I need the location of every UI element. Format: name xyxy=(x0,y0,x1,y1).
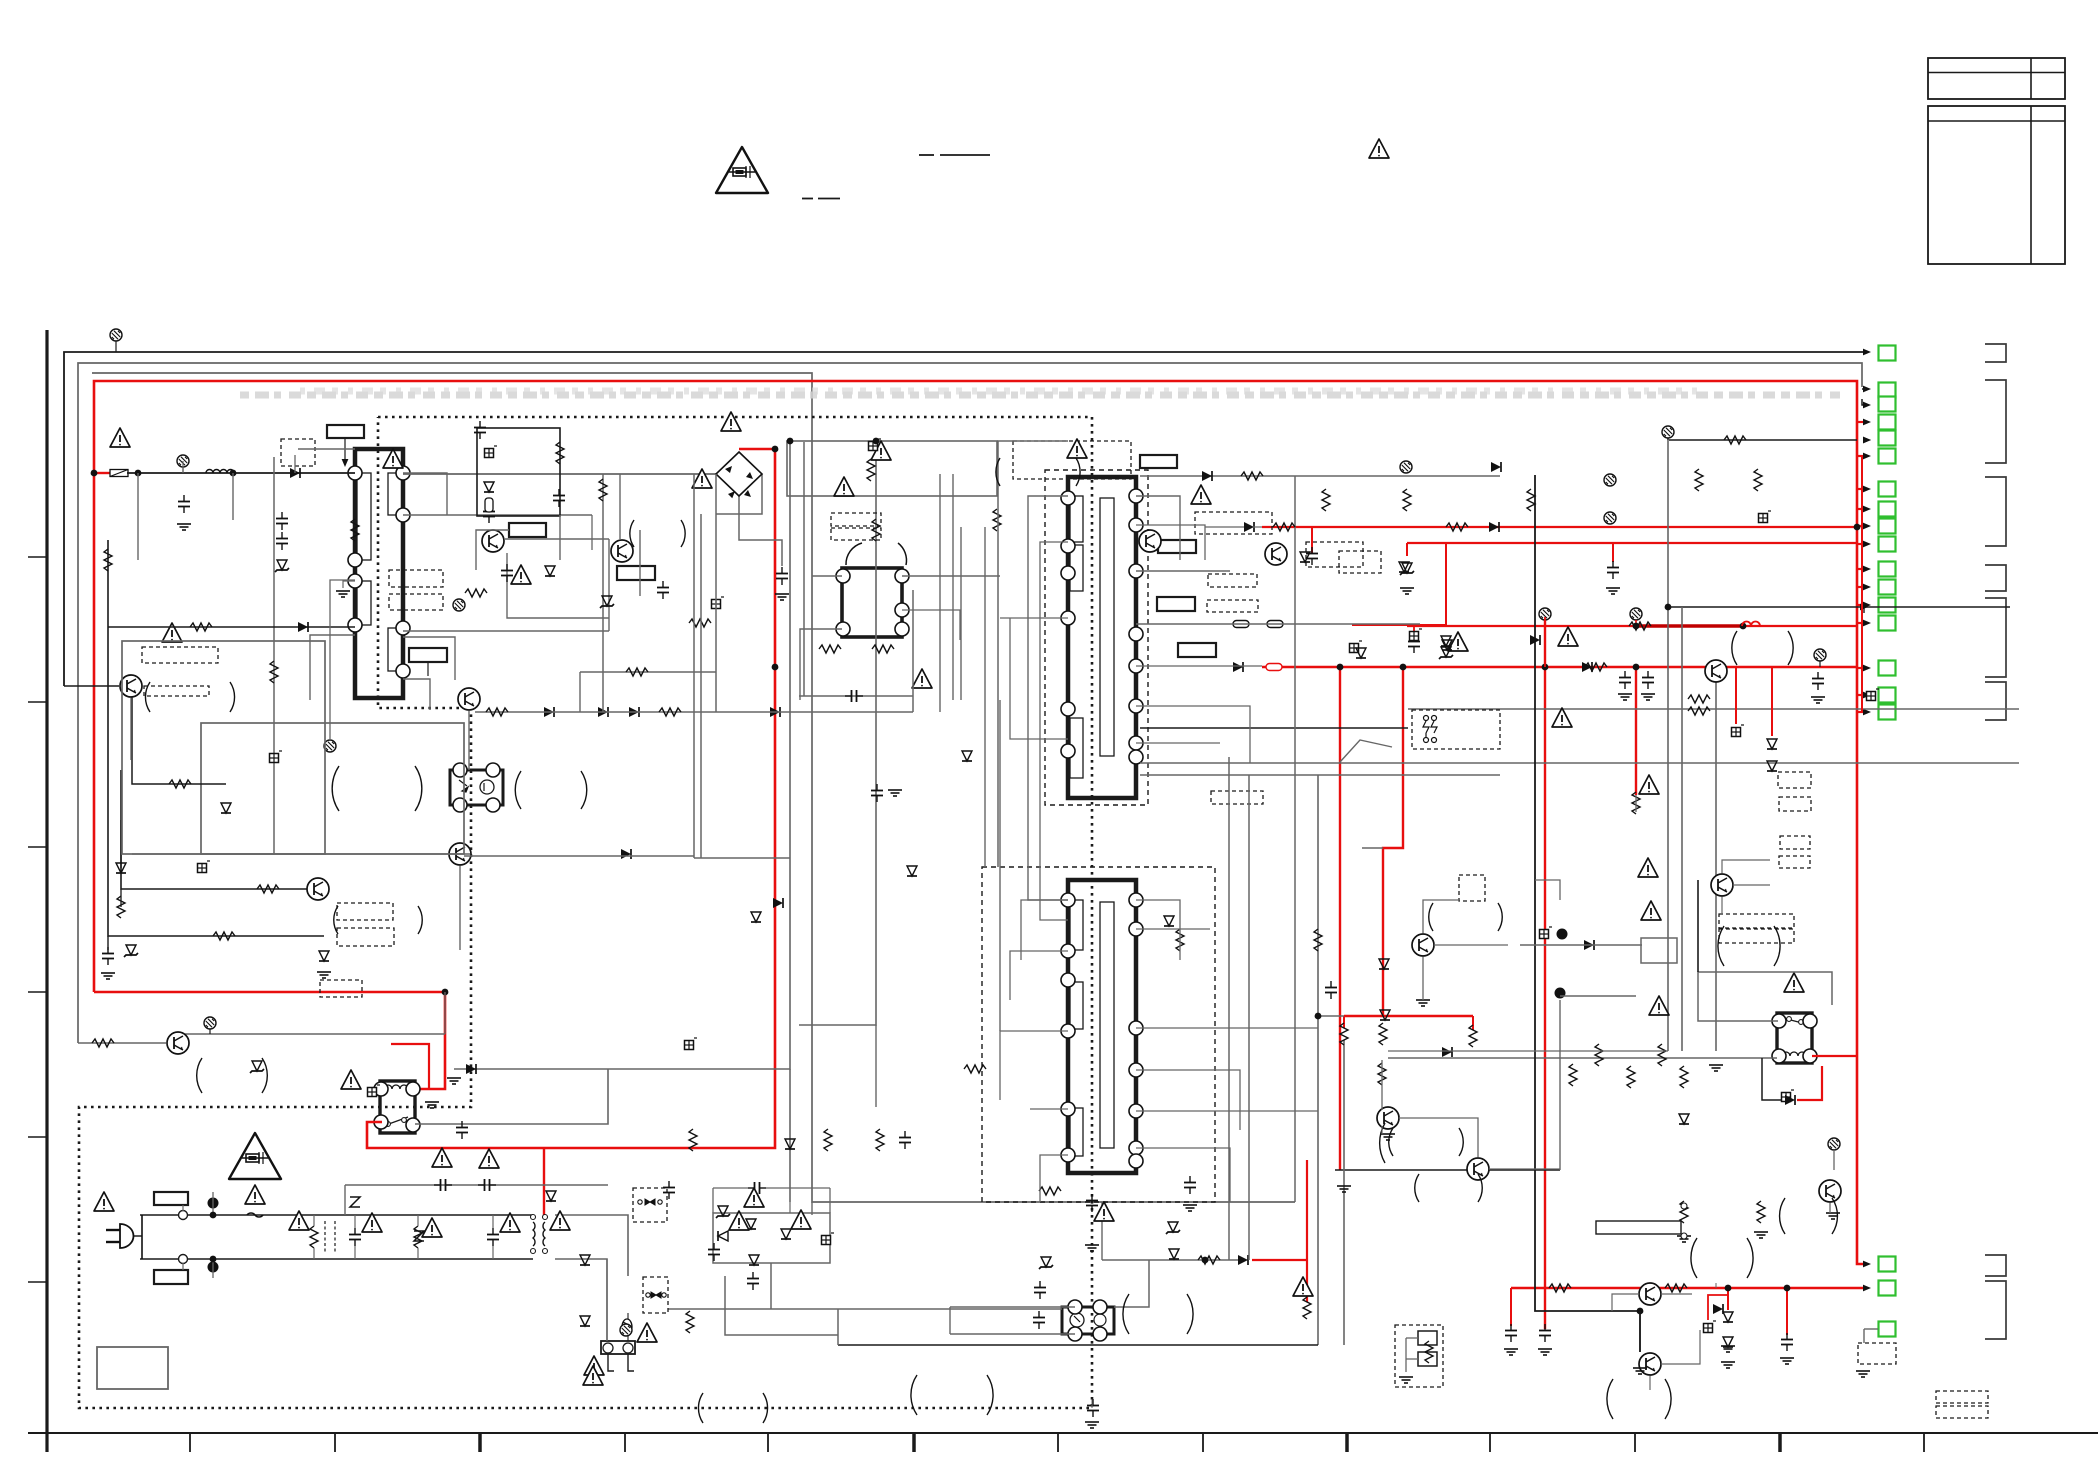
capacitor C90 xyxy=(349,1228,361,1246)
diode D xyxy=(1399,562,1409,572)
wire main row to bridge xyxy=(403,473,716,475)
wire relay2 branch xyxy=(1762,1058,1783,1100)
wire red relay2 diode xyxy=(1797,1066,1822,1100)
optocoupler PC2 pin xyxy=(1093,1327,1107,1341)
diode D xyxy=(1582,662,1592,672)
border bottom tick xyxy=(912,1433,916,1452)
bridge rectifier BR1 xyxy=(716,452,762,496)
diode D xyxy=(546,1191,556,1201)
border left tick xyxy=(28,991,46,993)
dash marks xyxy=(919,154,934,156)
wire q16 vert xyxy=(1715,682,1717,1051)
wire diag crank xyxy=(1340,740,1392,762)
arrow into CN 607 xyxy=(1860,604,1868,611)
transistor Q9 xyxy=(1711,874,1733,896)
wire red branch to line filter xyxy=(543,1148,545,1218)
ground xyxy=(1337,1186,1351,1192)
test point TP11 xyxy=(324,740,336,752)
warning symbol W35 xyxy=(583,1366,603,1385)
wire q16 net3 xyxy=(608,539,610,631)
warning symbol W20 xyxy=(432,1148,452,1167)
diode D xyxy=(1785,1095,1795,1105)
callout dashed box xyxy=(1412,710,1500,749)
callout dashed box xyxy=(1013,441,1131,479)
resistor R xyxy=(876,1129,884,1151)
capacitor C xyxy=(1033,1311,1045,1329)
wire red stub to CN pin xyxy=(1857,711,1864,713)
resistor R xyxy=(1303,1297,1311,1319)
wire xyxy=(1136,1070,1240,1130)
border bottom tick xyxy=(1057,1433,1059,1452)
component label box xyxy=(617,566,655,580)
resistor R xyxy=(1658,1044,1666,1066)
callout dashed box xyxy=(1778,772,1811,788)
transformer T5 arcs xyxy=(846,543,862,565)
capacitor C polar xyxy=(1540,927,1553,939)
resistor R xyxy=(1322,489,1330,511)
warning symbol W33 xyxy=(744,1188,764,1207)
jack J1 inner square2 xyxy=(1418,1352,1437,1366)
wire red stub to CN pin xyxy=(1857,508,1864,510)
connector bracket xyxy=(1985,344,2006,362)
resistor R xyxy=(1176,929,1184,951)
wire red aux stub xyxy=(1413,625,1415,637)
junction xyxy=(135,470,142,477)
relay RL2 pin xyxy=(1772,1014,1786,1028)
capacitor C xyxy=(871,784,883,802)
transformer T5 pin xyxy=(836,622,850,636)
jack J1 wire xyxy=(1406,1337,1418,1339)
wire xyxy=(330,580,355,740)
connector CN pin box xyxy=(1879,661,1896,676)
resistor R xyxy=(819,645,841,653)
wire xyxy=(1535,880,1560,900)
connector CN pin box xyxy=(1879,537,1896,552)
wire red vert 1446 xyxy=(1445,543,1447,626)
diode D xyxy=(773,898,783,908)
junction xyxy=(873,438,880,445)
wire xyxy=(789,1202,791,1213)
resistor R xyxy=(1688,695,1710,703)
resistor R672 xyxy=(626,668,648,676)
transistor Q3 xyxy=(307,878,329,900)
wire red stub 1787 xyxy=(1786,1288,1788,1335)
diode D xyxy=(1380,1010,1390,1020)
connector bracket xyxy=(1985,565,2006,591)
isolation dashed box around T3 xyxy=(982,867,1215,1202)
component label box xyxy=(1178,643,1216,657)
test point TP6 xyxy=(1604,512,1616,524)
wire inner gray loop xyxy=(92,373,1295,1202)
diode zener ZD xyxy=(250,1061,264,1073)
transformer T2 pin xyxy=(1061,566,1075,580)
snubber parts xyxy=(485,446,498,458)
connector bracket xyxy=(1985,477,2006,546)
transformer T3 pin xyxy=(1129,1063,1143,1077)
capacitor C xyxy=(178,495,190,513)
border bottom tick xyxy=(1345,1433,1349,1452)
transformer T3 pin xyxy=(1129,922,1143,936)
resistor R476 xyxy=(1241,472,1263,480)
capacitor C polar xyxy=(1410,629,1423,641)
relay RL2 switch xyxy=(1783,1018,1806,1024)
winding arc pair xyxy=(1691,1238,1697,1278)
connector CN pin box xyxy=(1879,705,1896,720)
wire xyxy=(1136,665,1262,667)
tp stem xyxy=(1635,620,1637,630)
callout dashed box xyxy=(1779,797,1811,811)
ground xyxy=(425,1102,439,1108)
transformer T2 pin xyxy=(1129,627,1143,641)
diode D xyxy=(1530,635,1540,645)
IC label box gray xyxy=(1641,938,1677,963)
wire xyxy=(1721,897,1723,914)
diode D xyxy=(1238,1255,1248,1265)
wire vert 274 xyxy=(273,457,275,854)
warning symbol W34 xyxy=(1094,1202,1114,1221)
callout dashed box T5b xyxy=(831,528,881,540)
wire row 1345 xyxy=(838,1344,1318,1346)
title block upper divider xyxy=(1928,72,2065,74)
wire xyxy=(1612,1294,1639,1311)
transformer T3 winding b xyxy=(1070,982,1083,1029)
wire xyxy=(591,515,593,550)
wire xyxy=(1030,1108,1068,1110)
test point TP13 xyxy=(620,1324,632,1336)
border bottom tick xyxy=(1778,1433,1782,1452)
wire red rail stub xyxy=(1311,527,1313,554)
resistor R xyxy=(213,932,235,940)
callout dashed box xyxy=(1719,929,1794,943)
varistor Z2 mark xyxy=(414,1231,424,1241)
diode D xyxy=(1164,916,1174,926)
junction xyxy=(1740,623,1747,630)
optocoupler PC1 pin xyxy=(453,763,467,777)
transformer T2 pin xyxy=(1129,518,1143,532)
ground xyxy=(1085,1245,1099,1251)
junction xyxy=(1637,1308,1644,1315)
tp stem xyxy=(1819,661,1821,667)
wire vert 838 xyxy=(837,1309,839,1345)
wire red main B+ horizontal xyxy=(1262,666,1857,669)
optocoupler PC1 body xyxy=(450,770,503,805)
ground xyxy=(1826,1213,1840,1219)
wire red reg output xyxy=(1344,1015,1473,1017)
wire error amp row xyxy=(107,936,109,950)
resistor R xyxy=(117,896,125,918)
wire xyxy=(1661,1330,1700,1364)
wire red stub to CN pin xyxy=(1857,586,1864,588)
wire xyxy=(130,698,132,760)
sub bridge diode xyxy=(781,1229,791,1239)
junction xyxy=(787,438,794,445)
warning symbol W17 xyxy=(1641,901,1661,920)
wire vert 985 xyxy=(984,527,986,867)
wire red stub to CN pin xyxy=(1857,622,1864,624)
transistor Q2 xyxy=(167,1032,189,1054)
connector bracket xyxy=(1985,682,2006,720)
ground xyxy=(1606,588,1620,594)
border left tick xyxy=(28,556,46,558)
wire xyxy=(639,530,641,596)
ground xyxy=(1633,1368,1647,1374)
callout dashed box xyxy=(281,439,315,466)
resistor block box xyxy=(1596,1221,1681,1234)
callout dashed box xyxy=(144,686,209,696)
diode D xyxy=(580,1255,590,1265)
border bottom tick xyxy=(767,1433,769,1452)
wire red fuse feed xyxy=(94,472,110,474)
fusible pill 624b xyxy=(1267,621,1283,628)
wire degauss drop xyxy=(627,1313,629,1341)
border bottom tick xyxy=(624,1433,626,1452)
callout dashed box xyxy=(337,928,394,946)
resistor R784 xyxy=(169,780,191,788)
wire red to relay xyxy=(94,992,445,1089)
transformer T3 pin xyxy=(1061,1102,1075,1116)
warning symbol W32 xyxy=(791,1210,811,1229)
wire xyxy=(403,473,447,515)
wire q2 collector xyxy=(185,1033,445,1035)
wire xyxy=(1733,884,1770,886)
diode D xyxy=(1169,1249,1179,1259)
relay RL2 body xyxy=(1777,1013,1812,1063)
optocoupler PC1 pin xyxy=(486,798,500,812)
transformer T2 pin xyxy=(1129,750,1143,764)
wire vert 1249 xyxy=(1248,775,1250,1260)
transformer T1 pin xyxy=(396,621,410,635)
transformer T3 winding d xyxy=(1100,902,1114,1148)
diode D xyxy=(751,912,761,922)
junction xyxy=(1784,1285,1791,1292)
wire xyxy=(902,575,1000,577)
ground xyxy=(1504,1349,1518,1355)
transformer T3 pin xyxy=(1061,973,1075,987)
resistor R603 xyxy=(599,479,607,501)
wire bus 2 (gray loop) xyxy=(78,363,1862,1043)
resistor R xyxy=(92,1039,114,1047)
transformer T2 pin xyxy=(1129,736,1143,750)
resistor R xyxy=(1273,523,1295,531)
wire xyxy=(1000,1031,1068,1100)
diode D xyxy=(544,707,554,717)
snubber caps column xyxy=(276,512,288,530)
connector bracket xyxy=(1985,380,2006,463)
wire red standby rail xyxy=(1511,1287,1864,1289)
label arrow xyxy=(344,438,346,465)
wire T1 secondary row xyxy=(403,514,592,516)
wire red drop 1772 xyxy=(1771,667,1773,736)
wire reg row 1170 xyxy=(1335,1169,1560,1171)
callout dashed box T5a xyxy=(831,513,881,526)
wire startup vert 108 xyxy=(108,540,324,936)
ground xyxy=(101,973,115,979)
wire row 440 xyxy=(1669,439,1857,441)
connector bracket xyxy=(1985,598,2006,677)
warning symbol W23 xyxy=(94,1192,114,1211)
wire row 1058 xyxy=(1388,1057,1777,1059)
degauss posistor body xyxy=(601,1341,635,1354)
wire xyxy=(1136,1148,1230,1202)
wire red stub 1511 xyxy=(1510,1288,1512,1326)
capacitor C xyxy=(1306,547,1318,565)
test point TP3 xyxy=(204,1017,216,1029)
wire xyxy=(1136,496,1180,560)
junction xyxy=(230,470,237,477)
transformer T3 pin xyxy=(1129,893,1143,907)
warning symbol W31 xyxy=(729,1211,749,1230)
transformer T1 winding c xyxy=(388,473,403,515)
capacitor C polar xyxy=(712,597,725,609)
wire xyxy=(1864,1328,1878,1330)
diode D xyxy=(290,468,300,478)
capacitor C xyxy=(1325,981,1337,999)
ground xyxy=(317,972,331,978)
junction xyxy=(1633,623,1640,630)
component label box xyxy=(154,1270,188,1284)
winding arc pair xyxy=(1718,926,1724,966)
component label box xyxy=(1158,540,1196,553)
transistor Q6 xyxy=(1139,530,1161,552)
wire xyxy=(1829,1203,1831,1213)
diode D627 xyxy=(298,622,308,632)
wire xyxy=(1381,1060,1383,1110)
capacitor C xyxy=(483,505,495,523)
wire row 712 xyxy=(475,711,913,713)
ground xyxy=(177,524,191,530)
ground xyxy=(1538,1349,1552,1355)
diode D xyxy=(1491,462,1501,472)
warning symbol W11 xyxy=(1448,632,1468,651)
junction big dot a xyxy=(208,1198,219,1209)
diode D xyxy=(962,751,972,761)
winding arc pair xyxy=(145,682,150,712)
wire red drop c xyxy=(1472,1016,1474,1030)
wire sec net 848 xyxy=(1362,847,1383,849)
resistor R xyxy=(1680,1201,1688,1223)
warning symbol W22 xyxy=(245,1185,265,1204)
sub bridge diode xyxy=(718,1231,728,1241)
warning symbol W4 xyxy=(162,623,182,642)
wire relay aux xyxy=(415,1069,608,1124)
relay RL1 pin xyxy=(406,1082,420,1096)
resistor R xyxy=(872,645,894,653)
test point TP2 xyxy=(177,455,189,467)
wire row 854 xyxy=(132,853,470,855)
AC plug terminal b xyxy=(179,1255,188,1264)
wire tp row xyxy=(1667,432,1669,440)
wire vert 1344 xyxy=(1343,1040,1345,1345)
resistor R712a xyxy=(486,708,508,716)
wire sec row 709 xyxy=(1408,708,2019,710)
wire xyxy=(1136,928,1210,930)
transformer T2 pin xyxy=(1061,539,1075,553)
transformer T1 core xyxy=(355,449,403,698)
wire xyxy=(310,635,355,700)
ground xyxy=(1754,1232,1768,1238)
junction xyxy=(442,989,449,996)
resistor R vert274 xyxy=(270,661,278,683)
junction xyxy=(772,664,779,671)
wire red vert 1340 xyxy=(1339,667,1341,1170)
big junction dot xyxy=(1555,988,1566,999)
wire xyxy=(1136,623,1420,625)
wire xyxy=(63,352,65,560)
diode D xyxy=(1356,648,1366,658)
warning symbol W14 xyxy=(1639,775,1659,794)
border bottom tick xyxy=(478,1433,482,1452)
diode zener ZD xyxy=(716,1206,730,1218)
capacitor C xyxy=(1539,1324,1551,1342)
transformer T2 winding d xyxy=(1100,498,1114,756)
wire vert 790-1202 xyxy=(789,1069,791,1202)
junction xyxy=(1665,604,1672,611)
wire sec row 775 xyxy=(1140,774,1500,776)
callout dashed box xyxy=(1208,574,1257,587)
resistor R xyxy=(351,519,359,541)
tp stem xyxy=(182,467,184,473)
diode D xyxy=(1442,1047,1452,1057)
wire red drop a xyxy=(1343,1016,1345,1028)
wire xyxy=(1635,795,1637,812)
diode D1772a xyxy=(1767,739,1777,749)
border left tick xyxy=(28,701,46,703)
transformer T2 pin xyxy=(1061,491,1075,505)
big empty label box xyxy=(97,1347,168,1389)
fuse F2 on AC line xyxy=(247,1213,263,1217)
sub bridge cap b xyxy=(822,1233,835,1245)
resistor R xyxy=(1754,469,1762,491)
wire red staircase xyxy=(1383,667,1403,1016)
wire xyxy=(1091,1400,1093,1408)
wire startup vert 121 xyxy=(121,770,307,889)
transformer T5 pin xyxy=(895,569,909,583)
callout dashed box xyxy=(1719,914,1794,928)
ground xyxy=(888,790,902,796)
junction big dot b xyxy=(208,1262,219,1273)
warning symbol W21 xyxy=(479,1149,499,1168)
capacitor C xyxy=(1781,1333,1793,1351)
varistor Z1 mark xyxy=(350,1197,360,1207)
transformer T3 pin xyxy=(1129,1104,1143,1118)
component label box xyxy=(409,648,447,662)
junction xyxy=(1633,664,1640,671)
transformer T5 pin xyxy=(895,603,909,617)
relay RL1 pin xyxy=(374,1082,388,1096)
transistor Q10 xyxy=(1412,934,1434,956)
wire degauss row2 xyxy=(725,1276,838,1335)
resistor R xyxy=(1585,663,1607,671)
warning symbol W29 xyxy=(637,1323,657,1342)
warning symbol W1 (fuse caution triangle) xyxy=(716,147,768,193)
border bottom tick xyxy=(1202,1433,1204,1452)
capacitor C polar xyxy=(368,1085,381,1097)
wire vert 701 xyxy=(700,514,702,858)
degauss legs xyxy=(608,1354,614,1371)
wire bridge right xyxy=(716,474,762,514)
resistor R xyxy=(1549,1284,1571,1292)
winding arc pair xyxy=(1415,1174,1419,1202)
diode Dq16 xyxy=(545,566,555,576)
dash marks xyxy=(802,198,813,200)
wire xyxy=(1136,1110,1318,1112)
relay RL2 pin xyxy=(1803,1014,1817,1028)
wire sub line xyxy=(345,1184,608,1186)
warning symbol W26 xyxy=(422,1218,442,1237)
callout dashed box xyxy=(320,980,362,997)
capacitor C xyxy=(1607,561,1619,579)
connector CN pin box xyxy=(1879,502,1896,517)
